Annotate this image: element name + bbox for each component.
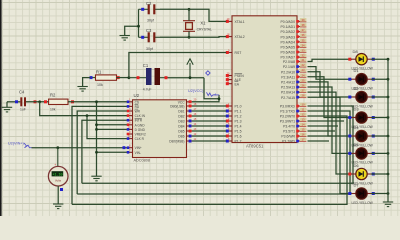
- U1 pin 17 P3.7/RD: [282, 138, 306, 144]
- svg-text:10k: 10k: [50, 108, 56, 112]
- U2 pin 17 DB1: [178, 108, 197, 114]
- svg-text:WR: WR: [135, 110, 141, 114]
- svg-text:RD: RD: [135, 105, 140, 109]
- wire C2/X1 to XTAL1: [160, 9, 226, 21]
- wire U1 P3.6: [308, 135, 333, 137]
- junction gnd bus D1: [387, 78, 390, 81]
- svg-text:38: 38: [301, 23, 305, 27]
- logic state VIN+: [123, 146, 126, 149]
- junction AGND: [95, 123, 98, 126]
- wire C4 to R2: [26, 101, 49, 103]
- wire bus1 to U1 P3.0: [82, 106, 353, 183]
- U1 pin 5 P1.4: [226, 122, 242, 129]
- U2 pin 1 CS: [127, 99, 139, 105]
- U1 pin 9 RST: [226, 48, 241, 55]
- logic state D5 cathode: [372, 152, 375, 155]
- svg-text:P2.0/A8: P2.0/A8: [283, 60, 295, 64]
- svg-text:P1.1: P1.1: [235, 110, 242, 114]
- svg-text:CS: CS: [135, 100, 139, 104]
- svg-text:DB3: DB3: [178, 120, 184, 124]
- U1 pin 19 XTAL1: [226, 17, 245, 24]
- svg-text:P0.4/AD4: P0.4/AD4: [280, 40, 295, 44]
- wire gnd to C4: [7, 101, 20, 103]
- svg-text:P1.4: P1.4: [235, 125, 242, 129]
- svg-text:C1: C1: [143, 63, 149, 68]
- wire bus2 to U1 P3.1: [77, 111, 350, 194]
- svg-text:P2.5/A13: P2.5/A13: [281, 86, 295, 90]
- LED D6 on: [352, 168, 371, 179]
- junction DGND: [95, 128, 98, 131]
- svg-text:D3: D3: [354, 106, 360, 111]
- svg-text:30pf: 30pf: [146, 47, 153, 51]
- wire D6 cathode to gnd bus: [371, 173, 388, 175]
- LED D2 off: [352, 91, 371, 102]
- svg-text:25: 25: [301, 78, 305, 82]
- svg-text:14: 14: [301, 123, 305, 127]
- U1 pin 18 XTAL2: [226, 32, 245, 39]
- logic state C4 left: [15, 100, 18, 103]
- wire U2 D GND to ground net: [97, 128, 127, 130]
- net tap squiggle U2(VCC): [207, 92, 220, 96]
- U2 pin 12 DB6: [178, 133, 197, 139]
- svg-text:16: 16: [301, 133, 305, 137]
- svg-text:D4: D4: [354, 125, 360, 130]
- wire U2 DB4 to U1 P1.4: [192, 125, 226, 127]
- svg-text:D2: D2: [354, 86, 360, 91]
- svg-text:P1.7: P1.7: [235, 140, 242, 144]
- U1 pin 31 EA: [226, 80, 240, 87]
- wire D2 cathode to gnd bus: [371, 96, 388, 98]
- svg-text:P0.5/AD5: P0.5/AD5: [280, 46, 295, 50]
- wire U1 P2.3 to LED D3: [308, 77, 353, 118]
- svg-text:36: 36: [301, 33, 305, 37]
- U2 pin 5 INTR: [127, 117, 143, 123]
- svg-text:D7: D7: [354, 182, 360, 187]
- wire D3 cathode to gnd bus: [371, 117, 388, 119]
- wire U2 DB7 to U1 P1.7: [192, 140, 226, 142]
- svg-text:DB2: DB2: [178, 115, 184, 119]
- svg-text:D GND: D GND: [135, 128, 146, 132]
- U1 pin 25 P2.4/A12: [281, 78, 306, 84]
- U1 pin 1 P1.0: [226, 102, 242, 109]
- svg-text:P2.6/A14: P2.6/A14: [281, 91, 295, 95]
- junction gnd bus D3: [387, 116, 390, 119]
- svg-text:P1.5: P1.5: [235, 130, 242, 134]
- wire C4/R2 node to U2 CLK IN: [40, 102, 127, 116]
- wire X1 bottom lead: [188, 31, 190, 37]
- crystal X1: [183, 20, 212, 31]
- U1 pin 28 P2.7/A15: [281, 94, 306, 100]
- net tap squiggle U2(VIN+): [24, 143, 32, 148]
- svg-text:VIN-: VIN-: [135, 151, 141, 155]
- svg-text:P0.2/AD2: P0.2/AD2: [280, 30, 295, 34]
- svg-text:32: 32: [301, 54, 305, 58]
- ground ADC: [91, 176, 101, 181]
- svg-text:13: 13: [301, 118, 305, 122]
- wire D8 cathode to gnd bus: [371, 58, 388, 60]
- logic state C3 left: [141, 36, 144, 39]
- svg-text:C3: C3: [146, 28, 152, 33]
- wire U1 P2.6 to LED D6: [308, 92, 353, 174]
- svg-text:P2.2/A10: P2.2/A10: [281, 70, 295, 74]
- svg-text:P0.0/AD0: P0.0/AD0: [280, 20, 295, 24]
- junction C2C3/ground: [137, 25, 140, 28]
- svg-text:P0.1/AD1: P0.1/AD1: [280, 25, 295, 29]
- svg-text:12: 12: [301, 113, 305, 117]
- svg-text:D5: D5: [354, 142, 360, 147]
- svg-text:XTAL1: XTAL1: [235, 20, 245, 24]
- U2 pin 10 D GND: [127, 126, 146, 132]
- LED D5 off: [352, 148, 371, 159]
- wire D1 cathode to gnd bus: [371, 78, 388, 80]
- junction R1/C1/RST: [127, 76, 130, 79]
- LED D8 on: [352, 54, 371, 65]
- svg-text:ADC0808: ADC0808: [134, 159, 150, 163]
- U1 pin 7 P1.6: [226, 132, 242, 139]
- svg-text:CRYSTAL: CRYSTAL: [197, 28, 212, 32]
- wire U1 P2.1 to LED D1: [308, 67, 353, 80]
- U2 pin 18 DB0(LSB): [170, 103, 197, 109]
- logic state D2 cathode: [372, 96, 375, 99]
- svg-text:VIN+: VIN+: [135, 146, 142, 150]
- wire ground net vertical: [96, 102, 98, 176]
- U2 pin 4 CLK IN: [127, 113, 146, 119]
- ground crystal cluster: [120, 36, 130, 41]
- wire U1 P3.7: [308, 140, 330, 142]
- wire to crystal ground: [125, 26, 139, 35]
- svg-text:U2(VCC): U2(VCC): [188, 89, 204, 93]
- svg-text:P0.6/AD6: P0.6/AD6: [280, 51, 295, 55]
- svg-text:11: 11: [302, 108, 305, 112]
- wire U2 DB0 to U1 P1.0: [192, 105, 226, 107]
- resistor R1 10k: [91, 69, 117, 87]
- wire LED ground bus: [387, 59, 389, 202]
- ground R1: [77, 87, 87, 92]
- logic state C2 left: [141, 8, 144, 11]
- power terminal VCC arrow: [187, 59, 193, 78]
- U2 pin 13 DB5: [178, 128, 197, 134]
- svg-text:D6: D6: [354, 163, 360, 168]
- logic state R2 right: [71, 100, 74, 103]
- wire U1 P3.5: [308, 130, 336, 132]
- U2 pin 9 VREF/2: [127, 131, 146, 137]
- U1 pin 39 P0.0/AD0: [280, 18, 306, 24]
- svg-text:P2.1/A9: P2.1/A9: [283, 65, 295, 69]
- capacitor C1 4.7uF: [129, 63, 168, 91]
- svg-text:10: 10: [301, 103, 305, 107]
- wire U1 P2.0 to LED D8: [308, 59, 353, 61]
- wire U2 DB2 to U1 P1.2: [192, 115, 226, 117]
- LED D7 off: [352, 188, 371, 199]
- wire VIN+ net: [32, 147, 127, 149]
- svg-text:P3.7/RD: P3.7/RD: [282, 140, 295, 144]
- svg-text:10k: 10k: [97, 83, 103, 87]
- logic state C1 left: [137, 76, 140, 79]
- wire R1 right: [117, 77, 129, 79]
- logic state R2 left: [44, 100, 47, 103]
- svg-text:U2: U2: [134, 93, 140, 98]
- svg-text:P1.3: P1.3: [235, 120, 242, 124]
- logic state R1 right: [117, 76, 120, 79]
- U1 pin 12 P3.2/INT0: [280, 113, 307, 119]
- svg-text:P0.7/AD7: P0.7/AD7: [280, 56, 295, 60]
- svg-text:A GND: A GND: [135, 123, 146, 127]
- svg-text:DB6: DB6: [178, 135, 184, 139]
- U2 pin 7 VIN-: [127, 149, 141, 155]
- wire U2 WR to bus2: [77, 111, 127, 194]
- voltmeter VM1: [48, 148, 68, 186]
- svg-text:INTR: INTR: [135, 119, 143, 123]
- logic state D8 anode: [348, 58, 351, 61]
- U1 pin 30 ALE: [226, 75, 242, 82]
- svg-text:P3.4/T0: P3.4/T0: [283, 125, 295, 129]
- junction gnd bus D8: [387, 58, 390, 61]
- blue diamond marker: [206, 71, 210, 75]
- junction gnd bus D6: [387, 173, 390, 176]
- svg-text:LED-YELLOW: LED-YELLOW: [352, 201, 374, 205]
- svg-text:P3.2/INT0: P3.2/INT0: [280, 115, 295, 119]
- U2 pin 8 A GND: [127, 122, 146, 128]
- wire bus3 to U1 P3.2: [72, 116, 347, 204]
- U2 pin 2 RD: [127, 103, 140, 109]
- ground C4 left: [2, 107, 12, 112]
- svg-text:P3.0/RXD: P3.0/RXD: [280, 105, 296, 109]
- logic state voltmeter-: [60, 188, 63, 191]
- svg-text:24: 24: [301, 73, 305, 77]
- logic state R1 left: [90, 76, 93, 79]
- wire R1 to ground: [83, 78, 91, 87]
- U1 pin 21 P2.0/A8: [283, 58, 306, 64]
- svg-text:30pf: 30pf: [147, 18, 154, 22]
- svg-text:4.7uF: 4.7uF: [143, 87, 152, 91]
- svg-text:D8: D8: [353, 49, 359, 54]
- U1 pin 24 P2.3/A11: [281, 73, 306, 79]
- wire CLK R loop: [87, 116, 127, 139]
- junction CS/ground net: [95, 100, 98, 103]
- logic state D3 cathode: [372, 116, 375, 119]
- junction gnd bus D7: [387, 192, 390, 195]
- junction X1 top: [188, 8, 191, 11]
- U2 pin 20 VCC: [178, 99, 197, 105]
- wire voltmeter to ground: [57, 186, 59, 204]
- wire U1 P3.4: [308, 125, 339, 127]
- U1 pin 10 P3.0/RXD: [280, 103, 306, 109]
- LED D3 off: [352, 112, 371, 123]
- wire D7 cathode to gnd bus: [371, 193, 388, 195]
- svg-text:33: 33: [301, 49, 305, 53]
- svg-text:D1: D1: [354, 68, 360, 73]
- logic state D7 anode: [348, 192, 351, 195]
- svg-text:28: 28: [301, 94, 305, 98]
- wire C1 to VCC node: [168, 77, 204, 79]
- svg-text:39: 39: [301, 18, 305, 22]
- capacitor C2 30pf: [139, 1, 161, 23]
- junction voltmeter tap: [56, 146, 59, 149]
- svg-text:XTAL2: XTAL2: [235, 35, 245, 39]
- svg-text:P1.2: P1.2: [235, 115, 242, 119]
- svg-text:Volts: Volts: [55, 178, 62, 182]
- svg-text:26: 26: [301, 84, 305, 88]
- logic state D8 cathode: [372, 58, 375, 61]
- logic state D2 anode: [348, 96, 351, 99]
- wire U2 A GND to ground net: [97, 124, 127, 126]
- wire U1 P2.7 to LED D7: [308, 97, 353, 193]
- svg-text:P2.3/A11: P2.3/A11: [281, 75, 295, 79]
- svg-text:C4: C4: [19, 89, 25, 94]
- ground voltmeter: [53, 204, 63, 209]
- svg-text:EA: EA: [235, 82, 240, 86]
- svg-text:27: 27: [301, 89, 305, 93]
- svg-text:1uF: 1uF: [20, 108, 26, 112]
- logic state C4 right: [34, 100, 37, 103]
- U1 pin 27 P2.6/A14: [281, 89, 306, 95]
- U2 pin 11 DB7(MSB): [169, 138, 196, 144]
- svg-text:+: +: [54, 163, 56, 167]
- logic state D7 cathode: [372, 192, 375, 195]
- wire U1 P2.5 to LED D5: [308, 87, 353, 153]
- wire C2-C3 left vertical: [138, 9, 140, 37]
- svg-text:AT89C51: AT89C51: [246, 144, 264, 149]
- svg-text:P1.0: P1.0: [235, 105, 242, 109]
- svg-text:34: 34: [301, 43, 305, 47]
- junction VCC/label: [218, 97, 221, 100]
- svg-text:DB0(LSB): DB0(LSB): [170, 105, 184, 109]
- junction C4/R2 node: [38, 100, 41, 103]
- wire D4 cathode to gnd bus: [371, 135, 388, 137]
- svg-text:15: 15: [301, 128, 305, 132]
- U1 pin 4 P1.3: [226, 117, 242, 124]
- svg-text:DB5: DB5: [178, 130, 184, 134]
- U1 pin 35 P0.4/AD4: [280, 38, 306, 44]
- svg-text:R1: R1: [96, 69, 102, 74]
- LED D4 off: [352, 130, 371, 141]
- svg-text:35: 35: [301, 38, 305, 42]
- U1 pin 16 P3.6/WR: [281, 133, 306, 139]
- wire U2 DB6 to U1 P1.6: [192, 135, 226, 137]
- svg-text:P3.1/TXD: P3.1/TXD: [280, 110, 295, 114]
- LED D1 off: [352, 74, 371, 85]
- wire to RST pin: [129, 53, 226, 78]
- wire U1 P2.4 to LED D4: [308, 82, 353, 136]
- svg-text:RST: RST: [235, 51, 242, 55]
- U1 pin 14 P3.4/T0: [283, 123, 306, 129]
- logic state D1 cathode: [372, 78, 375, 81]
- svg-text:DB1: DB1: [178, 110, 184, 114]
- junction CLKIN/CLKR riser: [86, 114, 89, 117]
- U1 pin 37 P0.2/AD2: [280, 28, 306, 34]
- U1 pin 34 P0.5/AD5: [280, 43, 306, 49]
- U2 pin 14 DB4: [178, 123, 197, 129]
- wire U2 DB3 to U1 P1.3: [192, 120, 226, 122]
- logic state D4 cathode: [372, 135, 375, 138]
- wire VCC node down: [204, 78, 219, 99]
- logic state D6 cathode: [372, 173, 375, 176]
- wire U1 P2.2 to LED D2: [308, 72, 353, 97]
- logic state D1 anode: [348, 78, 351, 81]
- svg-text:DB7(MSB): DB7(MSB): [169, 140, 184, 144]
- U1 pin 26 P2.5/A13: [281, 84, 306, 90]
- U1 pin 2 P1.1: [226, 107, 242, 114]
- U1 pin 6 P1.5: [226, 127, 242, 134]
- capacitor C3 30pf: [139, 28, 161, 51]
- svg-text:P3.3/INT1: P3.3/INT1: [280, 120, 295, 124]
- logic state D4 anode: [348, 135, 351, 138]
- svg-text:CLK IN: CLK IN: [135, 114, 146, 118]
- U1 pin 29 PSEN: [226, 71, 244, 78]
- U1 pin 13 P3.3/INT1: [280, 118, 307, 124]
- svg-text:DB4: DB4: [178, 125, 184, 129]
- wire U2 RD to bus3: [72, 106, 127, 204]
- microcontroller U1 AT89C51 body: [232, 16, 297, 143]
- U1 pin 32 P0.7/AD7: [280, 54, 306, 60]
- wire D5 cathode to gnd bus: [371, 152, 388, 154]
- U2 pin 3 WR: [127, 108, 141, 114]
- svg-text:+1.10: +1.10: [53, 172, 63, 176]
- wire VIN- to ground net: [97, 151, 127, 153]
- svg-text:R2: R2: [50, 92, 56, 97]
- svg-text:CLK R: CLK R: [135, 137, 145, 141]
- U1 pin 33 P0.6/AD6: [280, 49, 306, 55]
- U1 pin 8 P1.7: [226, 137, 242, 144]
- U2 pin 19 CLK R: [127, 136, 145, 142]
- junction VCC arrow: [189, 76, 192, 79]
- U2 pin 15 DB3: [178, 118, 197, 124]
- svg-text:21: 21: [301, 58, 305, 62]
- U1 pin 36 P0.3/AD3: [280, 33, 306, 39]
- logic state D5 anode: [348, 152, 351, 155]
- logic state C1 right: [165, 76, 168, 79]
- svg-text:P2.7/A15: P2.7/A15: [281, 96, 295, 100]
- junction gnd bus D5: [387, 152, 390, 155]
- U1 pin 23 P2.2/A10: [281, 68, 306, 74]
- svg-text:P3.5/T1: P3.5/T1: [283, 130, 295, 134]
- svg-text:23: 23: [301, 68, 305, 72]
- svg-text:P1.6: P1.6: [235, 135, 242, 139]
- wire gnd stem: [6, 102, 8, 108]
- U1 pin 11 P3.1/TXD: [280, 108, 306, 114]
- junction gnd bus D2: [387, 96, 390, 99]
- wire U2 DB5 to U1 P1.5: [192, 130, 226, 132]
- svg-text:VREF/2: VREF/2: [135, 133, 146, 137]
- svg-text:U2(VIN+): U2(VIN+): [8, 142, 25, 146]
- U2 pin 6 VIN+: [127, 145, 142, 151]
- resistor R2 10k: [49, 92, 68, 111]
- capacitor C4: [19, 89, 26, 111]
- svg-text:P2.4/A12: P2.4/A12: [281, 81, 295, 85]
- svg-text:P0.3/AD3: P0.3/AD3: [280, 35, 295, 39]
- wire R2 to U2 CS: [68, 101, 127, 103]
- wire X1 top lead: [188, 9, 190, 20]
- svg-text:22: 22: [301, 63, 305, 67]
- logic state D3 anode: [348, 116, 351, 119]
- svg-text:X1: X1: [200, 20, 206, 25]
- ground LED bus: [383, 202, 393, 207]
- svg-text:P3.6/WR: P3.6/WR: [281, 135, 295, 139]
- U1 pin 22 P2.1/A9: [283, 63, 306, 69]
- U2 pin 16 DB2: [178, 113, 197, 119]
- logic state D6 anode: [348, 173, 351, 176]
- U1 pin 3 P1.2: [226, 112, 242, 119]
- junction gnd bus D4: [387, 135, 390, 138]
- junction VIN- ground: [95, 151, 98, 154]
- U1 pin 38 P0.1/AD1: [280, 23, 306, 29]
- wire U1 P3.3: [308, 120, 345, 122]
- junction X1 bottom: [188, 36, 191, 39]
- U1 pin 15 P3.5/T1: [283, 128, 306, 134]
- svg-text:C2: C2: [146, 1, 152, 6]
- svg-text:17: 17: [301, 138, 305, 142]
- wire to U2 VCC pin: [192, 95, 219, 102]
